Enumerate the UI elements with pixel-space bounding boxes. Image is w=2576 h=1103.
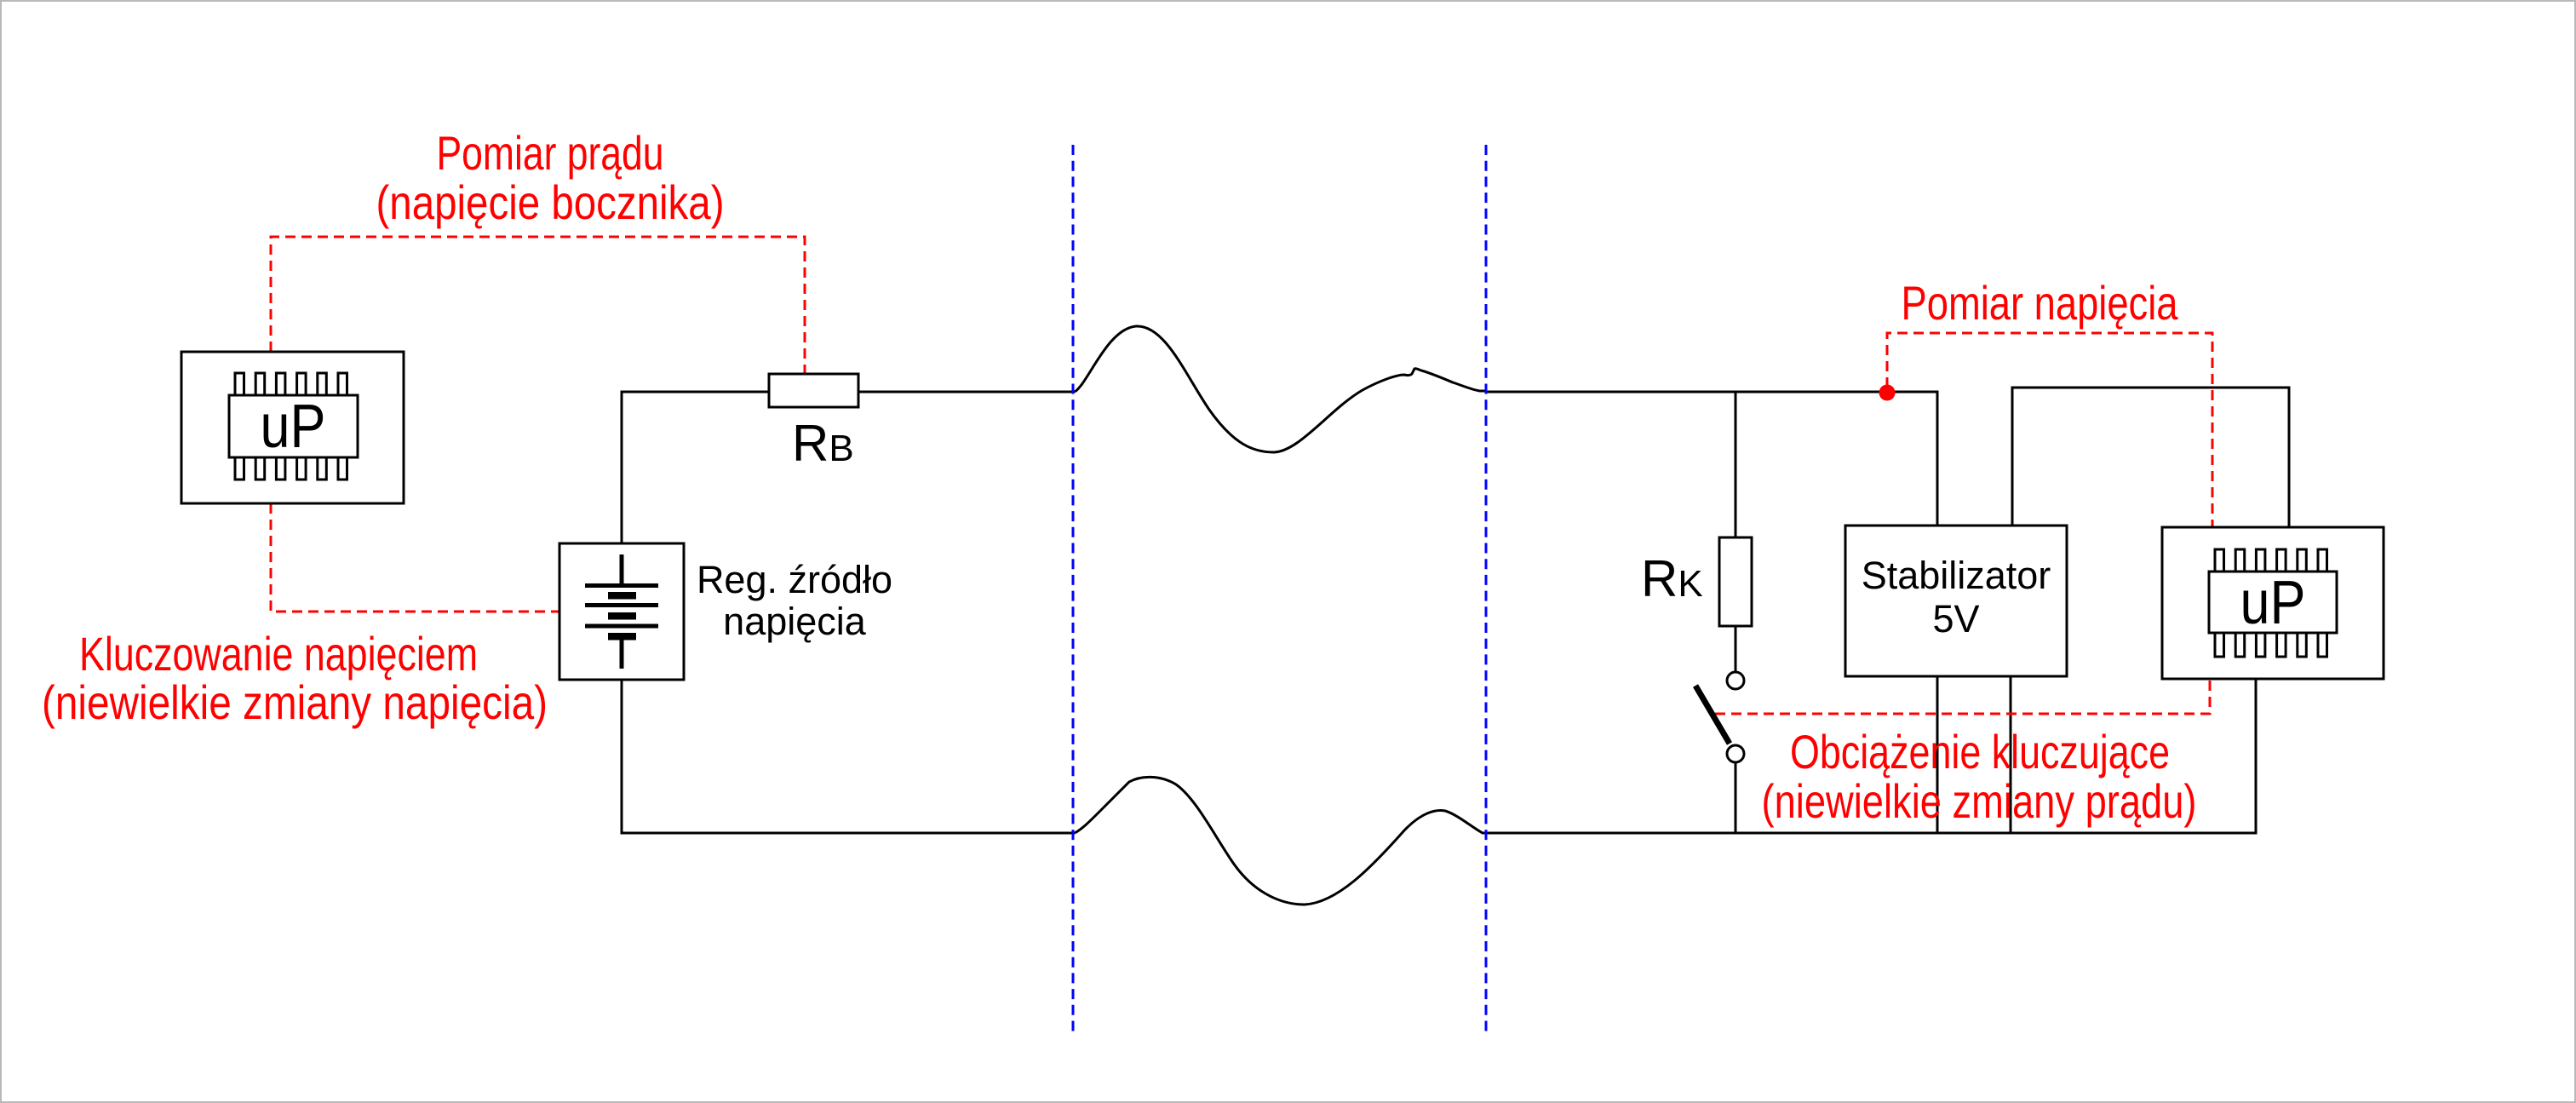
battery / regulated source B1 box — [559, 543, 684, 680]
U3 chip body — [2209, 572, 2337, 633]
switch S1 top contact — [1727, 672, 1744, 689]
B1 battery symbol — [585, 554, 658, 669]
wire: switch to bottom rail — [1735, 762, 1737, 833]
red dashed: voltage measurement link — [1887, 333, 2212, 527]
svg-text:Obciążenie kluczujące: Obciążenie kluczujące — [1790, 725, 2170, 778]
svg-text:uP: uP — [2240, 569, 2306, 637]
wire: stabilizer bottom left leg — [1936, 676, 1939, 833]
red dashed: switching load link — [1715, 679, 2210, 714]
wire: RK to switch — [1735, 626, 1737, 672]
red dashed: voltage keying link — [271, 503, 559, 612]
wire: battery top to resistor RB — [622, 392, 769, 543]
svg-text:Kluczowanie napięciem: Kluczowanie napięciem — [79, 627, 478, 681]
svg-text:napięcia: napięcia — [723, 600, 867, 643]
wire: right uP supply loop — [2012, 388, 2289, 527]
wire: top right from cable to stabilizer tap — [1486, 392, 1937, 526]
microcontroller U3 box (right) — [2162, 527, 2384, 679]
U3 chip pins top — [2215, 549, 2327, 572]
U1 chip pins top — [235, 373, 347, 395]
microcontroller U1 box (left) — [181, 352, 404, 503]
svg-text:uP: uP — [261, 393, 326, 461]
U1 chip body — [229, 395, 358, 457]
svg-text:(napięcie bocznika): (napięcie bocznika) — [376, 175, 725, 229]
U3 chip pins bottom — [2215, 633, 2327, 657]
node: measurement point (red dot) — [1879, 385, 1896, 401]
wire: bottom rail to right uP — [1486, 679, 2256, 833]
svg-text:Pomiar napięcia: Pomiar napięcia — [1902, 276, 2179, 330]
wire: RB to left cable break — [858, 391, 1075, 394]
resistor RB — [769, 374, 858, 407]
wire: battery bottom to left cable break — [622, 680, 1075, 833]
svg-text:Pomiar prądu: Pomiar prądu — [437, 126, 664, 180]
wire: bottom cable squiggle — [1075, 777, 1486, 905]
blue dashed line right — [1485, 145, 1488, 1036]
blue dashed line left — [1072, 145, 1075, 1036]
svg-text:5V: 5V — [1932, 597, 1979, 641]
switch S1 lever — [1695, 686, 1730, 744]
svg-text:Reg. źródło: Reg. źródło — [697, 558, 892, 601]
svg-text:(niewielkie zmiany prądu): (niewielkie zmiany prądu) — [1762, 774, 2197, 828]
stabilizer U2 box — [1845, 526, 2067, 676]
U1 chip pins bottom — [235, 457, 347, 480]
resistor RK — [1719, 537, 1752, 626]
svg-text:Stabilizator: Stabilizator — [1862, 554, 2051, 597]
wire: RK tap from top rail — [1735, 392, 1737, 537]
wire: stabilizer bottom right leg — [2010, 676, 2012, 833]
switch S1 bottom contact — [1727, 745, 1744, 762]
wire: top cable squiggle — [1075, 326, 1486, 452]
red dashed: current measurement loop — [271, 237, 805, 374]
svg-text:(niewielkie zmiany napięcia): (niewielkie zmiany napięcia) — [42, 675, 548, 729]
